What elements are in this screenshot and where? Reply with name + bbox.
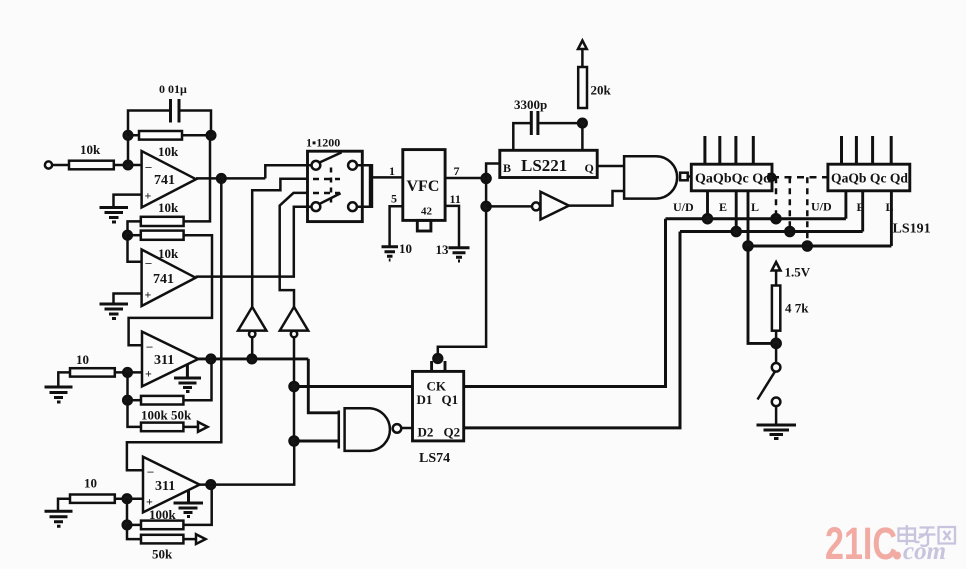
ground R5 <box>45 387 73 402</box>
svg-text:10k: 10k <box>158 200 179 215</box>
wire pin7 down to LS74 CK <box>438 178 486 358</box>
wire U4 + junction down <box>126 499 129 525</box>
svg-text:4 7k: 4 7k <box>785 301 809 316</box>
svg-text:13: 13 <box>436 242 450 257</box>
resistor R3 10k upper to U2 <box>141 217 184 226</box>
power arrow 1.5V <box>772 262 781 271</box>
NAND G1 <box>624 156 677 198</box>
svg-text:741: 741 <box>154 173 175 188</box>
op-amp U1 741 <box>142 151 196 208</box>
svg-text:+: + <box>145 189 152 203</box>
wire U2 output to switch bottom pole <box>196 207 312 277</box>
ground U4 <box>174 491 204 517</box>
svg-text:B: B <box>503 161 511 175</box>
svg-text:U/D: U/D <box>811 200 832 214</box>
svg-text:–: – <box>145 256 153 270</box>
wire U8 U/D pin riser <box>844 191 847 219</box>
svg-text:–: – <box>147 464 155 478</box>
wire R6 right up to output <box>183 359 211 400</box>
LS74 U9 box <box>413 371 464 441</box>
svg-text:E: E <box>719 200 727 214</box>
svg-text:3300p: 3300p <box>514 97 547 112</box>
wire dashed drop to E row <box>789 177 792 228</box>
wire cascade dashed line <box>772 176 828 179</box>
svg-text:311: 311 <box>155 479 175 494</box>
wire S1 throws to common bar <box>357 165 369 206</box>
wire bus U3 output <box>198 357 308 360</box>
wire U1 output <box>196 177 265 180</box>
resistor R12 4.7k <box>772 286 780 331</box>
resistor R5 10 comparator U3 <box>70 368 115 376</box>
wire U8 E pin riser <box>861 191 864 232</box>
wire B2 input from switch with diagonal <box>280 193 308 307</box>
wire VFC pin11 to ground <box>445 206 459 247</box>
svg-text:741: 741 <box>153 272 174 287</box>
wire U8 L pin riser <box>890 191 893 246</box>
wire S2 to ground <box>775 406 778 424</box>
wire C2 left lead <box>513 123 530 150</box>
wire input to R1 <box>52 164 69 167</box>
wire arrow to R12 <box>775 271 778 286</box>
svg-text:311: 311 <box>154 353 174 368</box>
wire S1 common to VFC pin1 <box>373 176 403 179</box>
wire capacitor branch left riser <box>128 111 170 136</box>
switch S2 lever <box>758 372 775 400</box>
svg-text:7: 7 <box>454 164 460 178</box>
svg-text:10: 10 <box>76 352 89 367</box>
wire LS221 Q to NAND G1 <box>597 165 624 168</box>
ground R8 <box>45 511 73 526</box>
resistor R9 100k feedback U4 <box>127 524 141 527</box>
wire G2 output to D2 <box>401 427 412 430</box>
svg-text:10k: 10k <box>158 144 179 159</box>
wire G2 lower input <box>294 440 339 443</box>
wire E row <box>680 230 863 233</box>
wire U1 output rail down to U4 - input <box>127 178 221 470</box>
wire R10 arrow <box>183 538 196 541</box>
switch S1 coupling dashes <box>313 178 340 181</box>
wire junction up to feedback rail <box>127 135 130 165</box>
wire R4 left <box>128 234 141 237</box>
ground U3 <box>174 365 201 392</box>
LS74 CK stub <box>432 361 445 371</box>
svg-text:1▪1200: 1▪1200 <box>306 136 340 150</box>
svg-text:Q: Q <box>585 161 594 175</box>
wire junction to inverter <box>486 205 532 208</box>
svg-text:D1: D1 <box>417 392 433 407</box>
NAND G2 output bubble <box>393 424 402 433</box>
wire VFC pin5 to ground <box>390 206 403 246</box>
ground U1 <box>100 208 129 223</box>
NAND G1 output bubble <box>680 173 688 181</box>
wire R7 arrow <box>183 426 198 429</box>
wire capacitor branch right riser <box>180 111 212 136</box>
svg-text:10: 10 <box>84 476 97 491</box>
switch S1 top pole <box>312 161 321 170</box>
buffer B2 <box>280 307 308 331</box>
comparator U4 311 <box>143 457 200 513</box>
wire U1 output to switch top pole <box>265 165 311 178</box>
node switch S2 top junction <box>772 339 781 348</box>
wire U7 E pin stub <box>735 191 738 232</box>
wire B1 input from switch <box>252 179 307 307</box>
wire junction down to R10 <box>127 525 141 539</box>
wire U4 output up to NAND G2 lower input <box>200 441 295 485</box>
counter U8 LS191 box <box>828 164 910 191</box>
node buffer1 output junction <box>248 355 257 364</box>
svg-text:0 01μ: 0 01μ <box>159 82 187 96</box>
node U2 input junction <box>123 231 132 240</box>
wire L row <box>748 245 891 248</box>
op-amp U2 741 <box>142 250 196 307</box>
svg-text:U/D: U/D <box>673 200 694 214</box>
resistor R7 50k potentiometer <box>141 423 183 432</box>
svg-text:11: 11 <box>450 192 461 206</box>
wire B1 output stem <box>251 337 254 359</box>
switch S1 bottom pole <box>312 202 321 211</box>
LS221 U6 box <box>500 150 597 177</box>
svg-text:1.5V: 1.5V <box>785 265 811 280</box>
svg-text:+: + <box>145 367 152 381</box>
svg-text:–: – <box>146 339 154 353</box>
wire R3 left to junction <box>128 221 141 235</box>
svg-text:L: L <box>886 200 894 214</box>
svg-text:+: + <box>145 288 152 302</box>
svg-text:10: 10 <box>399 241 412 256</box>
wire node to switch S2 <box>775 343 778 363</box>
resistor R10 50k potentiometer <box>141 535 183 544</box>
wire R12 down to node <box>775 331 778 344</box>
wire R11 up to supply arrow <box>581 49 584 67</box>
switch S2 upper contact <box>772 363 781 372</box>
resistor R11 20k <box>578 67 587 108</box>
node U3 output junction <box>207 355 216 364</box>
watermark dot <box>893 552 901 560</box>
wire L row down to 4.7k node <box>748 246 776 343</box>
wire C2 right lead <box>539 123 582 150</box>
resistor R2 10k feedback <box>139 131 182 140</box>
node R6 left junction <box>123 396 132 405</box>
wire U2 + input to ground <box>114 294 142 304</box>
svg-text:LS74: LS74 <box>419 451 450 466</box>
switch S1 top throw <box>348 161 357 170</box>
node inverter input junction <box>482 202 491 211</box>
svg-text:5: 5 <box>391 192 397 206</box>
node feedback right junction <box>207 131 216 140</box>
svg-text:E: E <box>857 200 865 214</box>
wire junction down to U2 - input <box>128 235 142 262</box>
counter U8 output stubs <box>842 136 892 164</box>
svg-text:20k: 20k <box>591 83 612 98</box>
node R9 left junction <box>123 521 132 530</box>
node U1 output junction <box>217 174 226 183</box>
resistor R8 10 comparator U4 <box>70 495 115 503</box>
svg-text:QaQbQc Qd: QaQbQc Qd <box>695 172 771 187</box>
capacitor C2 3300p plates <box>531 111 538 135</box>
wire Q2 feedback to E row <box>464 232 680 428</box>
wire U1 + input to ground <box>114 195 142 207</box>
counter U7 LS191 box <box>691 164 772 191</box>
resistor R1 10k input <box>69 161 114 170</box>
power arrow top <box>578 41 587 50</box>
wire R9 right up to output <box>183 485 211 525</box>
node U4 output junction <box>207 480 216 489</box>
svg-text:10k: 10k <box>80 142 101 157</box>
counter U7 output stubs <box>705 136 753 164</box>
wire R5 left to ground <box>58 372 70 386</box>
svg-text:Q2: Q2 <box>444 425 461 440</box>
svg-text:VFC: VFC <box>407 178 440 195</box>
svg-text:100k 50k: 100k 50k <box>141 408 192 423</box>
wire D1 input <box>294 385 413 388</box>
wire U7 U/D pin stub <box>706 191 709 219</box>
node C2 R11 junction <box>578 119 587 128</box>
node VFC pin7 junction <box>482 174 491 183</box>
watermark dianziwang glyphs <box>899 525 956 546</box>
wire R3 right up to feedback node <box>184 140 210 222</box>
ground S2 <box>757 425 797 439</box>
node cascade dashed start <box>768 174 775 181</box>
svg-text:1: 1 <box>389 164 395 178</box>
ground U2 <box>100 304 129 319</box>
wire R8 left to ground <box>58 499 70 511</box>
ground VFC pin10 <box>382 247 399 260</box>
svg-text:Q1: Q1 <box>442 392 459 407</box>
VFC U5 box <box>403 150 445 221</box>
wire G1 to counter1 <box>688 175 692 178</box>
node NAND G2 lower input junction <box>290 437 299 446</box>
wire Q1 feedback to U/D row <box>464 219 666 387</box>
ground VFC pin13 <box>449 248 470 261</box>
wire U3 + junction down <box>126 372 129 400</box>
comparator U3 311 <box>142 332 198 387</box>
svg-text:LS221: LS221 <box>521 156 567 175</box>
NAND G2 <box>338 411 341 449</box>
node U4 + input junction <box>123 494 132 503</box>
wire R1 to node <box>114 164 142 167</box>
node input terminal <box>45 161 52 168</box>
resistor R4 10k lower to U2 <box>141 231 184 240</box>
node D1 tap junction <box>290 382 299 391</box>
wire U/D row <box>666 217 846 220</box>
buffer B1 <box>238 307 266 331</box>
wire B2 output stem down through D1 tap to U4 output riser <box>293 337 296 441</box>
wire U7 L pin stub <box>747 191 750 246</box>
wire R4 right down to comparator rail <box>129 235 212 345</box>
wire R8 right to U4 + input <box>115 497 143 500</box>
svg-text:QaQb Qc Qd: QaQb Qc Qd <box>831 172 908 187</box>
wire dashed drop to U/D row <box>775 177 778 215</box>
wire junction down to R7 <box>128 400 142 427</box>
svg-text:L: L <box>751 200 759 214</box>
wire feedback rail <box>128 134 211 137</box>
switch S1 bottom throw <box>348 202 357 211</box>
switch S2 lower contact <box>772 398 781 407</box>
node U3 + input junction <box>123 368 132 377</box>
inverter V1 <box>532 202 540 210</box>
svg-text:50k: 50k <box>152 547 173 562</box>
svg-text:D2: D2 <box>418 425 434 440</box>
node feedback left junction <box>124 131 133 140</box>
wire dashed drop to L row <box>806 177 809 242</box>
wire VFC pin7 output <box>445 177 486 180</box>
wire R5 right to U3 + input <box>115 371 142 374</box>
svg-text:21IC: 21IC <box>825 518 897 569</box>
wire bus down to NAND G2 upper input <box>308 359 339 413</box>
resistor R6 100k feedback U3 <box>128 399 142 402</box>
wire inverter output to NAND G1 lower input <box>569 191 624 206</box>
VFC bottom tab <box>417 220 431 231</box>
svg-text:–: – <box>145 160 153 174</box>
wire pin7 up to LS221 B input <box>486 164 500 179</box>
svg-text:LS191: LS191 <box>893 222 931 237</box>
node op1 inverting input junction <box>124 161 133 170</box>
switch S1 box <box>308 151 363 221</box>
capacitor C1 0.01u plates <box>171 99 180 123</box>
svg-text:100k: 100k <box>149 507 177 522</box>
svg-text:42: 42 <box>421 206 433 218</box>
